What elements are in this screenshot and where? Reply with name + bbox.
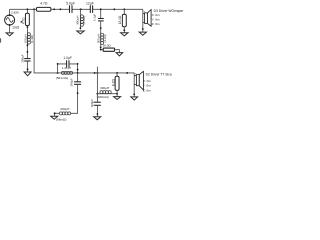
node [77,69,79,71]
wire branch D [123,9,125,14]
svg-text:2.83V: 2.83V [11,11,20,15]
node [54,112,56,114]
ground (source) [6,33,13,36]
svg-text:390µH: 390µH [100,86,109,90]
wire woofer drop [133,73,135,97]
node dot e [96,72,98,74]
wire F cap down [96,94,98,102]
svg-text:Y: 0m: Y: 0m [143,84,151,88]
svg-text:Y: 0m: Y: 0m [152,17,160,21]
ground (branch E) [51,116,58,119]
svg-text:1.0µF: 1.0µF [63,56,72,60]
ground (branch B) [77,31,84,34]
svg-text:(561mΩ): (561mΩ) [56,76,68,80]
AC source V1 [5,9,15,33]
wire [97,93,117,95]
wire [116,90,118,93]
ground (tweeter) [139,32,146,35]
node [27,44,29,46]
wire LC bypass right [69,64,78,73]
resistor R1 horizontal [36,7,51,11]
inductor L5 220µH loops [59,112,70,115]
svg-text:X: 0m: X: 0m [143,79,152,83]
node [142,28,144,30]
svg-text:220µH: 220µH [60,107,69,111]
wire [123,27,125,33]
wire branch A [26,9,28,13]
wire [26,26,28,59]
svg-text:Z: 0m: Z: 0m [152,22,160,26]
inductor L3 vertical loops [101,33,104,44]
svg-text:16.0Ω: 16.0Ω [102,43,111,47]
node [27,51,29,53]
node dot f [126,72,128,74]
capacitor C5 plates [67,60,69,67]
svg-text:(1.4Ω): (1.4Ω) [30,35,34,43]
node mark [21,21,23,23]
svg-text:390µF: 390µF [69,78,73,86]
node [27,26,29,28]
wire main top [10,8,143,10]
node [27,68,29,70]
ground (branch C) [116,53,123,56]
svg-text:300µH: 300µH [97,34,101,43]
svg-text:4.7Ω: 4.7Ω [22,17,26,24]
ground (woofer) [131,97,138,100]
node [100,47,102,49]
node dot a [53,8,55,10]
wire [71,84,78,113]
wire branch G [116,73,118,76]
node dot c [113,8,115,10]
node LC right [77,72,79,74]
ground (branch D) [121,33,128,36]
wire branch B [79,9,81,29]
node branch G [116,72,118,74]
inductor L1 vertical loops [27,33,30,44]
svg-text:8.2Ω: 8.2Ω [111,78,115,86]
node [57,63,59,65]
wire branch C [100,9,102,18]
capacitor C6 plates [74,82,81,85]
speaker U1 tweeter [143,10,151,27]
svg-text:12µF: 12µF [86,1,94,5]
node feed tap [33,8,35,10]
node [133,93,135,95]
ground (branch F/G) [114,97,121,100]
svg-text:(180mΩ): (180mΩ) [97,95,109,99]
inductor L6 loops [100,91,111,94]
resistor R2 vertical [25,13,29,25]
node [77,63,79,65]
wire [116,94,118,97]
ground (branch F cap) [94,117,101,120]
svg-text:D2 Driver TT Sica: D2 Driver TT Sica [146,73,172,77]
node [97,113,99,115]
wire [55,113,60,116]
node branch A [27,8,29,10]
wire [115,50,120,53]
node branch D [123,8,125,10]
capacitor C4 plates [98,19,104,21]
capacitor C2 series [70,5,73,12]
svg-text:Z: 0m: Z: 0m [143,88,151,92]
node branch B [80,8,82,10]
svg-text:100µF: 100µF [21,54,25,62]
svg-text:4.7Ω: 4.7Ω [40,2,48,6]
wire feed drop [34,9,58,73]
resistor R4 vertical [122,14,126,26]
node [77,92,79,94]
svg-text:3.3µF: 3.3µF [93,14,97,22]
svg-text:390µH: 390µH [76,16,80,25]
svg-text:X: 0m: X: 0m [152,13,161,17]
svg-text:13.4Ω: 13.4Ω [118,15,122,24]
resistor R3 horizontal [103,48,114,51]
node dot d [94,72,96,74]
svg-text:1mΩ: 1mΩ [12,25,20,29]
svg-text:5.6µF: 5.6µF [66,1,75,5]
wire bottom main [58,72,135,74]
wire LC bypass left [58,64,67,73]
capacitor C7 plates [94,102,101,105]
inductor L4 1.2mH loops [61,71,72,74]
svg-text:100µH: 100µH [24,34,28,43]
node dot b [59,8,61,10]
wire branch E down [77,73,79,82]
ground (branch A) [24,72,31,76]
node branch C [100,8,102,10]
capacitor C1 plates [24,59,30,61]
wire tweeter drop [142,9,144,32]
wire [26,61,28,72]
node [80,27,82,29]
node N1 [96,93,98,95]
svg-text:390µF: 390µF [90,99,94,107]
wire branch F stub and drop [96,67,98,94]
svg-text:(66mΩ): (66mΩ) [56,117,66,121]
capacitor C3 series [90,5,92,12]
svg-text:(1.2Ω): (1.2Ω) [82,16,86,24]
speaker U2 woofer [134,71,143,90]
svg-text:1.2mH: 1.2mH [62,66,71,70]
node [123,29,125,31]
node N2 [116,93,118,95]
node corner [100,49,102,51]
inductor L2 vertical loops [80,15,83,26]
node [100,27,102,29]
svg-text:(1.1Ω): (1.1Ω) [103,34,107,42]
wire [96,105,98,116]
label edge fragment [0,38,1,42]
wire [101,21,104,50]
node LC left [57,72,59,74]
resistor R5 vertical [115,76,119,90]
